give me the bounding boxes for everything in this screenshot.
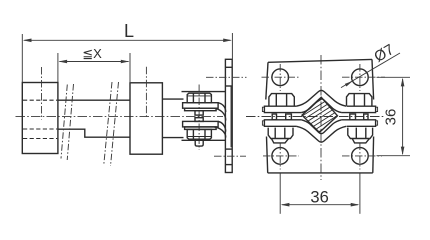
bottom right nut: [348, 128, 373, 139]
bottom left nut: [268, 128, 293, 139]
top left hole: [272, 69, 289, 86]
dimension 36 right: [377, 77, 411, 155]
hole centerlines: [262, 64, 386, 170]
bottom jaw inner curve: [301, 120, 341, 134]
bracket vertical bar: [225, 59, 232, 172]
dimension L line: [22, 33, 232, 82]
dimension X arrows: [58, 60, 129, 64]
bracket bottom hole centerline: [214, 155, 246, 157]
bracket top hole centerline: [206, 76, 247, 78]
plate right edge upper: [372, 59, 374, 99]
bottom nut: [187, 129, 211, 139]
top left nut: [269, 94, 294, 106]
right view main horizontal axis: [246, 116, 384, 118]
svg-text:36: 36: [382, 109, 399, 126]
plate left edge lower: [267, 137, 268, 173]
vertical bolt centerline: [198, 85, 200, 151]
cable top edge: [58, 99, 130, 101]
plate bottom edge: [268, 172, 373, 174]
bottom strap plate: [183, 121, 219, 127]
top jaw outer curve: [296, 90, 346, 106]
cable break mark pair 2: [104, 82, 119, 166]
middle clamp bolt centerline: [145, 67, 147, 117]
bottom left stud: [272, 139, 289, 143]
band washer nubs right: [376, 107, 378, 111]
dimension diameter 7 leader: [341, 53, 400, 88]
bolt shank upper: [195, 111, 203, 115]
left clamp bolt centerline: [41, 67, 43, 120]
top strap plate: [183, 103, 219, 109]
plate right edge lower: [372, 137, 375, 173]
dimension L arrows: [23, 39, 232, 43]
diamond hatching: [295, 71, 345, 156]
conductor diamond: [302, 97, 338, 132]
top right nut: [347, 94, 372, 106]
bolt shank lower: [195, 118, 203, 122]
plate top edge: [268, 59, 372, 62]
band strap top left: [264, 106, 301, 112]
plate left edge upper: [266, 62, 268, 99]
band washer nubs left: [262, 107, 264, 111]
bottom jaw outer curve: [296, 126, 346, 142]
svg-text:≦X: ≦X: [82, 46, 102, 61]
left clamp hidden groove line: [23, 138, 57, 140]
bracket bottom tab fillet inner: [218, 122, 226, 132]
bracket bottom tab fillet outer: [215, 127, 226, 138]
band strap top right: [342, 106, 376, 112]
cable break mark pair 1: [61, 84, 74, 160]
bottom washer: [185, 127, 217, 129]
bracket bottom hole edge lines: [226, 148, 232, 150]
top nut: [187, 93, 211, 103]
cable bottom edge with step: [58, 129, 130, 137]
bracket inner vertical line: [230, 86, 232, 147]
bolt stud end: [195, 139, 203, 146]
bracket bottom channel wall line: [182, 139, 226, 141]
bottom left hole: [272, 148, 289, 165]
top right hole: [352, 69, 369, 86]
top jaw inner curve: [301, 99, 341, 113]
bottom right stud: [352, 139, 369, 143]
main horizontal centerline axis: [16, 116, 224, 118]
clamp tongue bottom line: [162, 137, 183, 139]
top washer: [185, 108, 217, 111]
left clamp hidden cable top line: [23, 99, 57, 101]
right view main vertical centerline: [320, 55, 322, 180]
clamp tongue top line: [162, 98, 183, 100]
axis level blocks: [272, 114, 368, 120]
dimension 36 bottom: [280, 174, 360, 214]
band strap bottom right: [342, 120, 376, 127]
bottom right hole: [352, 148, 369, 165]
svg-text:36: 36: [310, 188, 328, 206]
bracket top hole edge lines: [226, 66, 232, 68]
band strap bottom left: [264, 120, 301, 127]
middle clamp body rect: [130, 83, 162, 154]
left clamp body rect: [22, 83, 58, 154]
svg-text:Ø7: Ø7: [371, 41, 397, 66]
bracket top tab fillet outer: [218, 103, 226, 112]
dimension X line: [58, 53, 130, 82]
bracket top tab fillet inner: [215, 108, 226, 120]
bracket top channel wall line: [182, 91, 226, 93]
svg-text:L: L: [124, 21, 134, 41]
left clamp hidden cable bottom line: [23, 128, 57, 130]
